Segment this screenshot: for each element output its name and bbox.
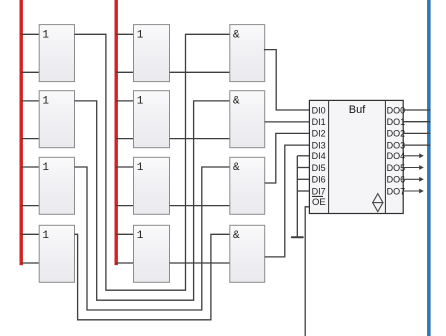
wire red1 to L1 input1 [21, 33, 39, 35]
wire red2 to M1 input2 [116, 71, 133, 73]
wire L4 output loop to A4 input1 [75, 234, 230, 319]
wire DI4-DI7 tie bus vertical [296, 156, 298, 237]
svg-text:OE: OE [312, 197, 326, 208]
wire red2 to M3 input2 [116, 205, 133, 207]
gate M4 col2 row4 (1) [134, 225, 170, 282]
svg-text:1: 1 [137, 29, 144, 41]
wire red1 to L1 input2 [21, 71, 39, 73]
wire red1 to L4 input2 [21, 262, 39, 264]
svg-text:1: 1 [137, 95, 144, 107]
svg-text:DO3: DO3 [387, 140, 406, 150]
svg-text:DO0: DO0 [387, 105, 406, 115]
wire red2 to M2 input1 [116, 100, 133, 102]
gate A4 AND col3 row4 (&) [230, 225, 265, 282]
gate A1 AND col3 row1 (&) [230, 25, 265, 82]
svg-text:DI7: DI7 [312, 186, 326, 196]
wire red2 to M4 input2 [116, 262, 133, 264]
wire red1 to L2 input2 [21, 138, 39, 140]
gate A2 AND col3 row2 (&) [230, 91, 265, 148]
wire red1 to L3 input1 [21, 166, 39, 168]
svg-text:DO7: DO7 [387, 186, 406, 196]
gate L4 col1 row4 (1) [39, 225, 74, 282]
svg-text:DO4: DO4 [387, 151, 406, 161]
gate M1 col2 row1 (1) [134, 25, 170, 82]
wire L1 output loop to A1 input1 [75, 34, 230, 290]
wire M3 output to A3 input2 [170, 205, 230, 207]
wire DO0 to blue bus [403, 109, 430, 111]
wire red2 to M4 input1 [116, 233, 133, 235]
wire L2 output loop to A2 input1 [75, 101, 230, 300]
wire DO4 open stub with arrow [403, 153, 424, 158]
blue bus net DOUT (output rail) [427, 0, 431, 336]
wire A2 output to DI1 [265, 121, 310, 123]
svg-text:DO5: DO5 [387, 163, 406, 173]
gate L1 col1 row1 (1) [39, 25, 74, 82]
wire DO1 to blue bus [403, 121, 430, 123]
wire red1 to L4 input1 [21, 233, 39, 235]
gate L3 col1 row3 (1) [39, 157, 74, 214]
wire DO2 to blue bus [403, 132, 430, 134]
wire M2 output to A2 input2 [170, 138, 230, 140]
svg-text:DI6: DI6 [312, 175, 326, 185]
svg-text:1: 1 [42, 95, 49, 107]
wire OE control down off-page [305, 207, 309, 336]
svg-text:1: 1 [42, 162, 49, 174]
svg-text:DI2: DI2 [312, 129, 326, 139]
svg-text:DO2: DO2 [387, 129, 406, 139]
svg-text:&: & [233, 95, 240, 107]
wire L3 output loop to A3 input1 [75, 167, 230, 310]
wire DO7 open stub with arrow [403, 189, 424, 194]
wire bus to DI7 [297, 190, 309, 192]
svg-text:DI4: DI4 [312, 151, 326, 161]
wire DO5 open stub with arrow [403, 165, 424, 170]
svg-text:&: & [233, 162, 240, 174]
wire M1 output to A1 input2 [170, 71, 230, 73]
buffer U1 (Buf) body [309, 100, 403, 213]
wire M4 output to A4 input2 [170, 262, 230, 264]
wire A1 output to DI0 [264, 50, 310, 110]
svg-text:DI5: DI5 [312, 163, 326, 173]
gate M3 col2 row3 (1) [134, 157, 170, 214]
U1 left pin column separator [328, 100, 330, 213]
svg-text:1: 1 [137, 230, 144, 242]
wire red2 to M2 input2 [116, 138, 133, 140]
gate M2 col2 row2 (1) [134, 91, 170, 148]
ground terminal symbol [292, 236, 303, 238]
svg-text:DI0: DI0 [312, 105, 326, 115]
svg-text:DO1: DO1 [387, 117, 406, 127]
wire red1 to L2 input1 [21, 100, 39, 102]
wire bus to DI4 [297, 155, 309, 157]
wire red2 to M3 input1 [116, 166, 133, 168]
wire red1 to L3 input2 [21, 205, 39, 207]
svg-text:DI3: DI3 [312, 140, 326, 150]
svg-text:DI1: DI1 [312, 117, 326, 127]
svg-text:&: & [233, 230, 240, 242]
svg-text:Buf: Buf [349, 104, 366, 116]
red bus net IN_B (second power rail) [115, 0, 118, 265]
gate A3 AND col3 row3 (&) [230, 157, 265, 214]
wire bus to DI6 [297, 178, 309, 180]
svg-text:&: & [233, 29, 240, 41]
gate L2 col1 row2 (1) [39, 91, 74, 148]
wire bus to DI5 [297, 167, 309, 169]
U1 right pin column separator [384, 100, 386, 213]
wire DO3 to blue bus [403, 144, 430, 146]
pin label OE with overline [312, 196, 326, 208]
wire A4 output to DI3 [265, 145, 310, 257]
red bus net IN_A (left power rail) [20, 0, 23, 265]
svg-text:1: 1 [137, 162, 144, 174]
svg-text:1: 1 [42, 230, 49, 242]
wire DO6 open stub with arrow [403, 177, 424, 182]
svg-text:DO6: DO6 [387, 175, 406, 185]
tri-state diamond symbol [372, 194, 383, 212]
svg-text:1: 1 [42, 29, 49, 41]
wire A3 output to DI2 [265, 133, 310, 183]
wire red2 to M1 input1 [116, 33, 133, 35]
